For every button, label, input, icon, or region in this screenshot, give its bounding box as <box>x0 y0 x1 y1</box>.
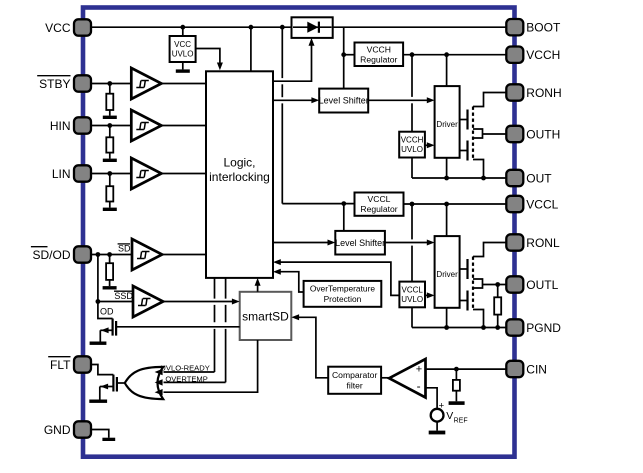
svg-text:Driver: Driver <box>436 270 458 279</box>
wire to SSD buffer <box>98 301 133 303</box>
wire VCC UVLO output to logic <box>196 49 220 66</box>
voltage source VREF <box>431 400 445 421</box>
arrowhead into OR gate input 1 <box>155 369 163 375</box>
svg-text:smartSD: smartSD <box>242 310 289 324</box>
wire to STBY resistor <box>109 84 111 94</box>
transistor high-side P-FET (pull-up) gate lead <box>460 119 468 121</box>
pin label LIN <box>52 167 71 181</box>
wire midpoint to OUTL pin <box>483 284 507 286</box>
wire UVLO-READY vertical from logic (with crossing hops) <box>214 278 216 372</box>
junction VCCL UVLO tap <box>410 202 415 207</box>
wire to CIN resistor <box>455 369 457 380</box>
arrowhead into high level shifter <box>311 97 319 103</box>
block smartSD <box>240 292 292 340</box>
pin VCCL <box>506 196 523 212</box>
svg-text:FLT: FLT <box>50 358 71 372</box>
wire VCCH rail <box>403 54 506 56</box>
svg-text:OD: OD <box>100 306 114 316</box>
transistor OD open-drain channel bar <box>111 319 113 336</box>
junction VCC UVLO tap <box>180 25 185 30</box>
svg-text:UVLO-READY: UVLO-READY <box>160 363 209 372</box>
resistor OUTL pulldown <box>494 297 501 314</box>
svg-text:Level Shifter: Level Shifter <box>335 238 385 248</box>
pin BOOT <box>506 19 523 35</box>
schmitt buffer SSD <box>133 286 163 317</box>
wire OUTL to pulldown resistor <box>497 285 499 298</box>
svg-text:+: + <box>439 400 445 411</box>
block Comparator filter <box>328 367 381 394</box>
svg-text:HIN: HIN <box>50 119 71 133</box>
pin LIN <box>74 165 91 181</box>
svg-text:Driver: Driver <box>436 120 458 129</box>
wire OTP output to logic <box>279 272 304 292</box>
svg-text:OUTL: OUTL <box>526 278 558 292</box>
block U-LOGIC Logic interlocking <box>206 71 273 278</box>
pin label RONH <box>526 86 561 100</box>
ground below FLT transistor <box>89 400 107 403</box>
pin label OUT <box>526 171 552 185</box>
wire logic to low level shifter <box>273 242 330 244</box>
wire SD/OD pin to SD buffer <box>91 254 132 256</box>
pin STBY <box>74 75 91 91</box>
wire low level shifter to driver <box>385 242 429 244</box>
wire HIN pin to buffer <box>91 125 131 127</box>
svg-text:filter: filter <box>347 381 363 391</box>
ground below LIN resistor <box>103 202 117 211</box>
svg-text:GND: GND <box>44 423 71 437</box>
wire midpoint to OUTH pin <box>483 133 507 135</box>
block low-side Driver <box>435 236 460 308</box>
arrowhead into OR gate input 3 <box>155 389 163 395</box>
ground below SD resistor <box>103 281 117 290</box>
pin CIN <box>506 361 523 377</box>
wire comparator + input to CIN pin <box>426 368 507 370</box>
svg-text:+: + <box>416 363 422 375</box>
net label SSD (overline) <box>114 291 133 301</box>
pin label RONL <box>526 236 560 250</box>
svg-text:UVLO: UVLO <box>172 50 194 59</box>
ground below VREF <box>429 422 446 435</box>
pin label HIN <box>50 119 71 133</box>
junction low FET source / PGND rail <box>481 325 486 330</box>
wire SD/OD to SSD branch <box>97 255 99 302</box>
pin VCC <box>74 19 91 35</box>
arrowhead into low driver <box>427 240 435 246</box>
wire VCCL feed vertical lower (crossing hop) <box>281 103 283 203</box>
wire VCCH rail to VCCH UVLO lower (crossing hop) <box>411 103 413 131</box>
wire high driver bottom to OUT rail <box>446 158 448 178</box>
junction low driver supply tap <box>444 202 449 207</box>
wire VCC UVLO supply stub <box>182 27 184 36</box>
transistor low-side P-FET (pull-up) gate lead <box>460 268 468 270</box>
svg-text:VCCH: VCCH <box>401 136 424 145</box>
wire low level-shifter supply <box>343 204 345 231</box>
junction VCCH regulator input tap <box>341 52 346 57</box>
svg-text:VCCH: VCCH <box>367 44 391 54</box>
wire logic to high level shifter <box>273 99 314 101</box>
schmitt buffer LIN <box>131 158 161 189</box>
junction VCCL feed tap <box>280 25 285 30</box>
junction SD/OD branch <box>96 252 101 257</box>
resistor SD pulldown <box>106 263 113 280</box>
pin RONH <box>506 84 523 100</box>
pin label OUTL <box>526 278 558 292</box>
bootstrap diode D1 <box>292 17 333 38</box>
junction VCCL feed / low level-shifter supply <box>341 201 346 206</box>
svg-text:-: - <box>417 379 421 393</box>
block VCCH Regulator <box>355 43 404 67</box>
svg-text:VCCL: VCCL <box>526 197 558 211</box>
arrowhead into diode box <box>309 38 315 46</box>
wire comparator - input to VREF <box>426 388 438 409</box>
resistor HIN pulldown <box>106 137 113 152</box>
wire FET drain to RONH pin <box>473 93 506 107</box>
pin OUTL <box>506 276 523 292</box>
pin label OUTH <box>526 127 560 141</box>
arrowhead into low level shifter <box>328 240 336 246</box>
arrowhead into logic bottom <box>255 278 261 286</box>
arrowhead into OR gate input 2 <box>155 379 163 385</box>
wire FET source to OUT rail <box>473 160 484 179</box>
svg-text:Logic,: Logic, <box>223 156 255 170</box>
wire smartSD to OD transistor gate <box>116 326 240 328</box>
transistor low-side P-FET gate bar <box>466 259 468 279</box>
wire VCCL feed horizontal <box>282 203 354 205</box>
wire VCCH UVLO output to driver <box>425 144 429 146</box>
svg-text:OVERTEMP: OVERTEMP <box>165 375 207 384</box>
resistor CIN pulldown <box>453 380 460 391</box>
pin label SD/OD <box>31 247 71 262</box>
wire VCCL feed vertical mid (crossing hop) <box>281 84 283 97</box>
wire low FET midpoint bracket <box>473 279 483 288</box>
svg-text:VCC: VCC <box>174 40 191 49</box>
wire VCCL UVLO output to driver <box>425 294 429 296</box>
svg-text:interlocking: interlocking <box>209 170 270 184</box>
wire VCCL to low driver top <box>446 204 448 236</box>
transistor FLT gate bar <box>116 377 118 392</box>
wire high level shifter to driver <box>368 99 429 101</box>
svg-text:SD/OD: SD/OD <box>32 248 70 262</box>
wire VCCH UVLO to OUT rail <box>411 158 413 179</box>
svg-text:LIN: LIN <box>52 167 71 181</box>
pin HIN <box>74 117 91 133</box>
svg-text:V: V <box>446 410 453 422</box>
junction low driver bottom / PGND rail <box>444 325 449 330</box>
arrowhead into smartSD left edge <box>232 299 240 305</box>
transistor high-side FET channel (dashed) <box>472 107 474 160</box>
svg-text:Comparator: Comparator <box>332 370 378 380</box>
wire VCCL UVLO ready to logic <box>279 262 400 295</box>
svg-text:OverTemperature: OverTemperature <box>310 284 376 294</box>
ground below OD transistor <box>90 342 107 345</box>
junction OUTL / pulldown resistor <box>495 282 500 287</box>
ground below VCC UVLO <box>176 62 190 73</box>
arrowhead into logic top <box>217 63 223 71</box>
block VCC UVLO <box>170 36 196 62</box>
wire comparator output to filter <box>381 377 389 379</box>
svg-text:Protection: Protection <box>324 294 362 304</box>
block VCCL Regulator <box>355 193 404 216</box>
wire OVERTEMP vertical from logic (with crossing hops) <box>225 278 227 383</box>
wire FLT pin to transistor drain <box>91 365 113 375</box>
wire to LIN resistor <box>109 174 111 187</box>
svg-text:Regulator: Regulator <box>360 54 397 64</box>
pin PGND <box>506 319 523 335</box>
svg-text:BOOT: BOOT <box>526 21 561 35</box>
wire pulldown resistor to PGND rail <box>497 315 499 328</box>
transistor high-side N-FET (pull-down) gate lead <box>460 150 468 152</box>
schmitt buffer STBY <box>131 68 161 99</box>
svg-text:RONH: RONH <box>526 86 561 100</box>
schmitt buffer HIN <box>131 110 161 141</box>
pin label BOOT <box>526 21 561 35</box>
pin OUT <box>506 170 523 186</box>
wire to SD resistor <box>109 255 111 264</box>
svg-text:OUTH: OUTH <box>526 127 560 141</box>
wire BOOT rail to high level-shifter supply <box>343 27 345 88</box>
svg-text:CIN: CIN <box>526 362 547 376</box>
wire VCCL rail to VCCL UVLO upper <box>411 204 413 239</box>
block VCCH UVLO <box>399 132 425 158</box>
arrowhead into high driver <box>427 97 435 103</box>
wire VCCL feed vertical upper <box>281 27 283 78</box>
block low-side Level Shifter <box>335 231 385 255</box>
resistor LIN pulldown <box>106 186 113 201</box>
wire OD transistor drain <box>98 302 113 319</box>
wire OUT rail <box>412 177 506 179</box>
block OverTemperature Protection <box>304 281 382 307</box>
svg-text:VCCH: VCCH <box>526 48 560 62</box>
svg-text:Level Shifter: Level Shifter <box>319 96 369 106</box>
arrowhead VCCH UVLO into driver <box>427 142 435 148</box>
arrowhead into logic right edge (overtemp) <box>273 269 281 275</box>
arrowhead VCCL UVLO into driver <box>427 292 435 298</box>
wire VCCL rail to VCCL UVLO lower (crossing hop) <box>411 246 413 282</box>
IC boundary frame <box>83 8 515 457</box>
svg-text:PGND: PGND <box>526 321 561 335</box>
junction high driver supply tap <box>444 52 449 57</box>
junction STBY pulldown <box>107 81 112 86</box>
junction VCCH UVLO tap <box>410 52 415 57</box>
wire LIN pin to buffer <box>91 173 131 175</box>
junction CIN resistor tap <box>454 367 459 372</box>
wire VCCL rail <box>404 203 507 205</box>
svg-text:UVLO: UVLO <box>401 145 423 154</box>
pin GND <box>74 421 91 437</box>
svg-text:SSD: SSD <box>114 291 133 301</box>
transistor low-side N-FET (pull-down) gate lead <box>460 300 468 302</box>
wire smartSD to fault OR gate <box>164 340 258 392</box>
block high-side Driver <box>435 86 460 158</box>
svg-text:VCC: VCC <box>45 21 71 35</box>
wire low FET source to PGND rail <box>473 310 484 328</box>
junction logic supply tap <box>249 25 254 30</box>
wire STBY buffer to logic <box>161 83 206 85</box>
pin label VCCH <box>526 48 560 62</box>
wire smartSD to logic <box>257 283 259 292</box>
ground below HIN resistor <box>103 153 117 162</box>
wire STBY pin to buffer <box>91 83 131 85</box>
svg-text:Regulator: Regulator <box>360 204 397 214</box>
wire GND pin to ground <box>91 430 109 438</box>
ground below STBY resistor <box>103 110 117 119</box>
wire VCCL UVLO to PGND rail <box>411 307 413 327</box>
transistor OD source with arrow <box>100 327 112 341</box>
svg-text:RONL: RONL <box>526 236 560 250</box>
pin FLT <box>74 356 91 372</box>
pin label STBY <box>37 76 70 91</box>
svg-text:SD: SD <box>118 244 131 254</box>
svg-text:VCCL: VCCL <box>402 286 424 295</box>
net label SD (overline) <box>118 244 131 254</box>
wire LIN buffer to logic <box>161 173 206 175</box>
wire HIN buffer to logic <box>161 125 206 127</box>
wire VCCH rail to VCCH UVLO upper <box>411 55 413 97</box>
svg-text:UVLO: UVLO <box>401 295 423 304</box>
transistor high-side N-FET gate bar <box>466 141 468 161</box>
ground below CIN resistor <box>449 391 465 405</box>
wire low driver bottom to PGND rail <box>446 308 448 328</box>
wire PGND rail <box>412 327 506 329</box>
junction LIN pulldown <box>107 171 112 176</box>
pin RONL <box>506 234 523 250</box>
junction pulldown resistor / PGND rail <box>495 325 500 330</box>
wire comparator filter to smartSD <box>297 317 328 378</box>
svg-text:REF: REF <box>454 417 468 424</box>
junction SSD / OD branch <box>96 299 101 304</box>
pin VCCH <box>506 47 523 63</box>
pin SD/OD <box>74 246 91 262</box>
transistor high-side P-FET gate bar <box>466 110 468 130</box>
wire logic to bootstrap diode control <box>273 44 312 81</box>
transistor FLT channel bar <box>112 375 114 392</box>
pin label GND <box>44 423 71 437</box>
svg-text:STBY: STBY <box>39 77 70 91</box>
junction driver bottom / OUT rail <box>444 176 449 181</box>
wire SD buffer to logic <box>162 254 206 256</box>
label VREF <box>446 410 467 425</box>
pin label VCCL <box>526 197 558 211</box>
pin label CIN <box>526 362 547 376</box>
junction FET source / OUT rail <box>481 176 486 181</box>
wire to HIN resistor <box>109 126 111 138</box>
block high-side Level Shifter <box>319 89 368 113</box>
pin OUTH <box>506 126 523 142</box>
wire VCC rail to logic top <box>250 27 252 71</box>
wire SSD buffer to smartSD <box>163 301 234 303</box>
op-amp comparator <box>389 359 425 398</box>
junction SD pulldown <box>107 252 112 257</box>
wire FET midpoint bracket <box>473 129 483 138</box>
wire VCCH to high driver top <box>446 55 448 86</box>
svg-text:VCCL: VCCL <box>368 194 391 204</box>
transistor low-side N-FET gate bar <box>466 291 468 311</box>
svg-text:OUT: OUT <box>526 171 552 185</box>
resistor STBY pulldown <box>106 94 113 110</box>
transistor OD gate bar <box>115 321 117 336</box>
junction HIN pulldown <box>107 123 112 128</box>
wire OVERTEMP horizontal <box>164 381 226 383</box>
arrowhead into logic right edge (uvlo ready) <box>273 259 281 265</box>
wire OR gate output to FLT gate <box>117 382 125 384</box>
ground at GND pin <box>102 438 115 441</box>
OR gate (fault combiner, mirrored) <box>125 367 163 399</box>
block VCCL UVLO <box>399 282 425 308</box>
arrowhead into smartSD right edge <box>291 314 299 320</box>
pin label PGND <box>526 321 561 335</box>
wire VCC rail to BOOT <box>91 26 506 28</box>
schmitt buffer SD <box>132 239 162 270</box>
wire UVLO-READY horizontal <box>164 371 215 373</box>
transistor low-side FET channel (dashed) <box>472 257 474 310</box>
transistor FLT source with arrow <box>100 384 114 400</box>
pin label FLT <box>48 357 71 372</box>
pin label VCC <box>45 21 71 35</box>
wire low FET drain to RONL pin <box>473 243 506 257</box>
wire to VCCH regulator input <box>344 54 355 56</box>
